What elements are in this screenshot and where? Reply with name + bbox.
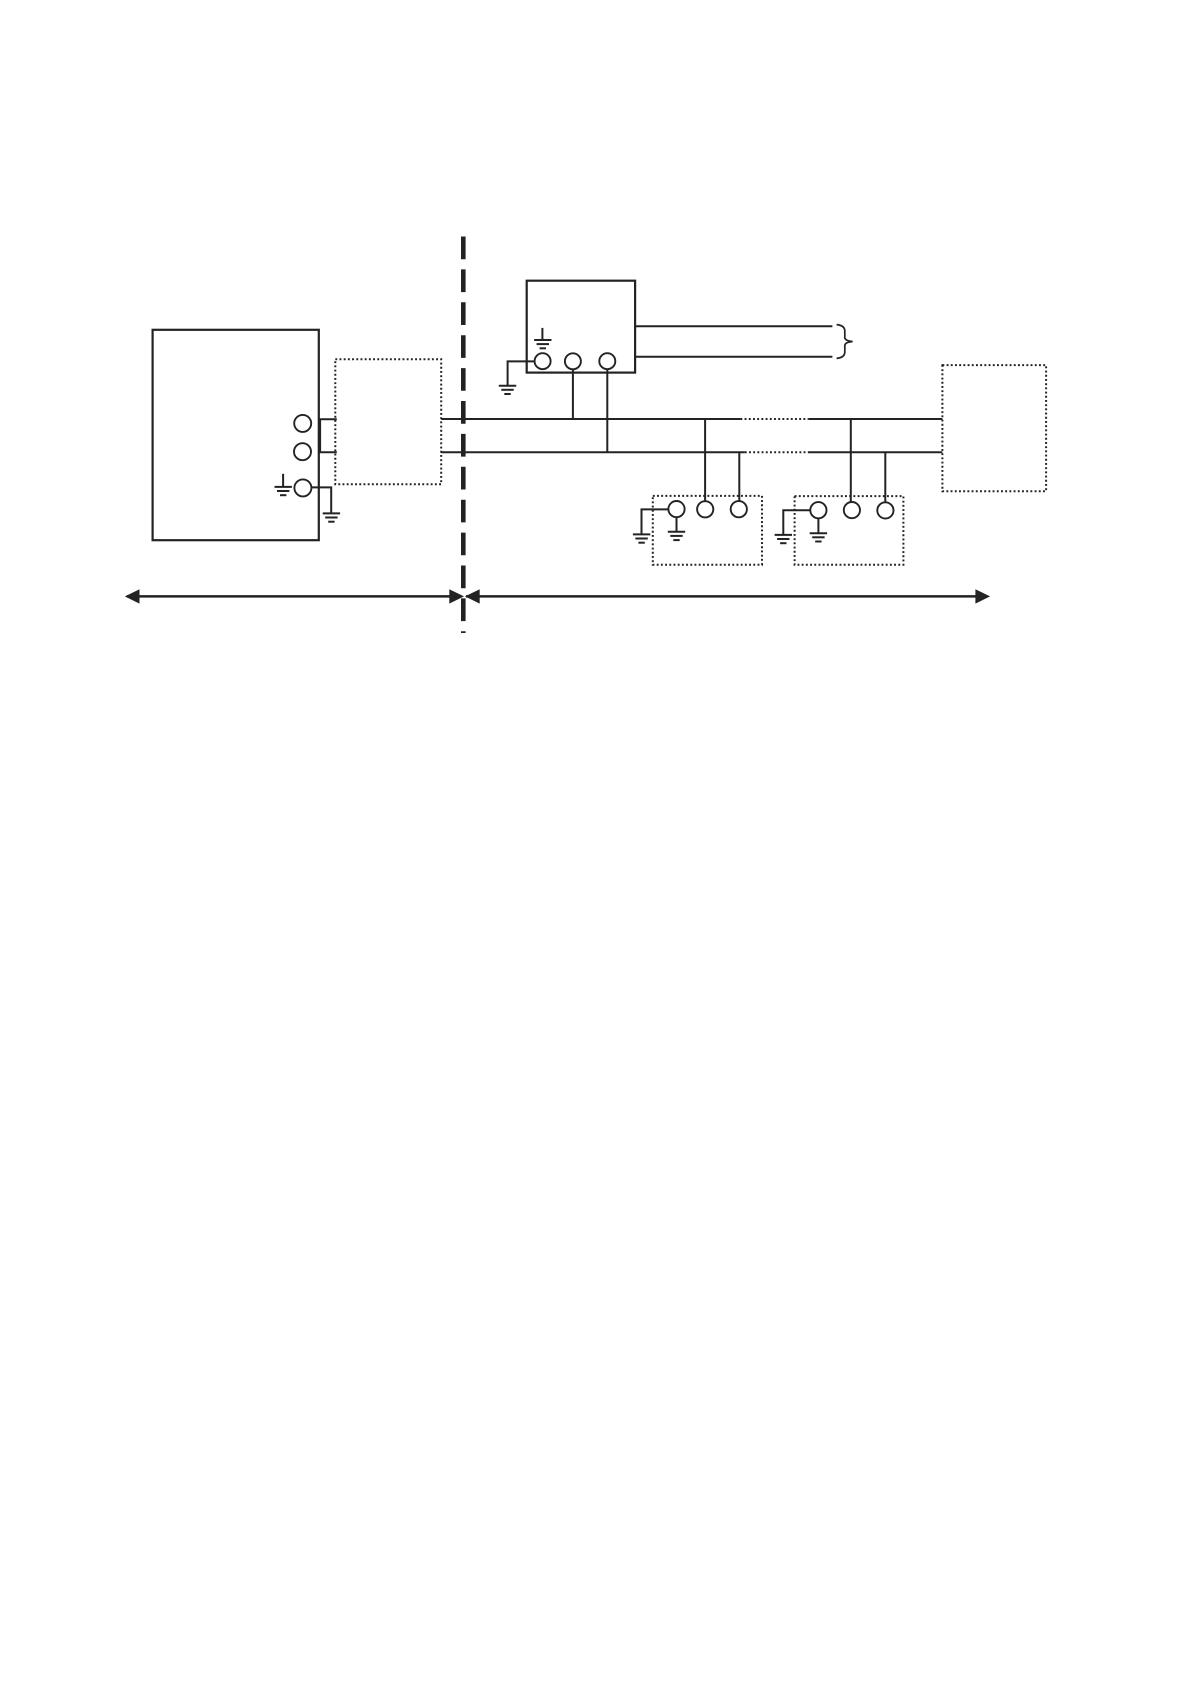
wire from terminal C down to bus 2 [606, 369, 608, 452]
bottom dotted box 2 [795, 496, 904, 565]
drop wire bus1 to box2 terminal 2 [850, 419, 852, 502]
ground symbol below T3 wire [323, 513, 340, 521]
terminal circle A in top box [535, 353, 551, 369]
ground symbol above terminal A [534, 328, 551, 348]
wire from terminal B down to bus 1 [572, 369, 574, 419]
terminal circle 2 of box 2 [844, 502, 860, 518]
terminal circle 3 of box 2 [877, 502, 893, 518]
terminal circle B in top box [565, 353, 581, 369]
terminal circle 2 of box 1 [697, 501, 713, 517]
curly brace bundling output wires [837, 325, 853, 359]
wire from T2 to filter box [319, 451, 337, 453]
terminal circle C in top box [599, 353, 615, 369]
drop wire bus2 to box2 terminal 3 [884, 452, 886, 502]
terminal circle 3 of box 1 [731, 501, 747, 517]
ground symbol below box1 terminal 1 [668, 517, 685, 540]
wire from T3 to ground [312, 487, 332, 513]
bottom dotted box 1 [653, 496, 762, 565]
right arrowhead [975, 589, 990, 603]
bus line 2 solid right part [810, 451, 943, 453]
wire from T1 to filter box [319, 418, 337, 420]
dashed boundary line [461, 237, 466, 634]
terminal circle T2 on left box [294, 443, 311, 460]
left span arrow line [127, 595, 461, 598]
terminal circle T1 on left box [294, 415, 311, 432]
bus line 2 dotted middle part [745, 451, 810, 453]
ground symbol left of box 1 [633, 534, 650, 542]
bus line 2 (lower) solid left part [441, 451, 745, 453]
terminal circle T3 on left box [294, 479, 311, 496]
top equipment box [527, 281, 635, 373]
terminal circle 1 of box 2 [810, 502, 826, 518]
wire from box1 terminal 1 to external ground [642, 509, 669, 534]
bus line 1 solid right part [809, 418, 943, 420]
bus line 1 (upper) solid left part [441, 418, 740, 420]
upper output wire from top box [635, 325, 832, 327]
vertical wire segment along left box edge [319, 419, 321, 452]
ground symbol left of box 2 [775, 535, 792, 543]
wire from box2 terminal 1 to external ground [783, 510, 810, 535]
center left-pointing arrowhead [465, 589, 480, 603]
ground symbol left of T3 [275, 474, 292, 495]
ground symbol below top box left [499, 386, 516, 394]
bus line 1 dotted middle part [740, 418, 808, 420]
wire from terminal A to external ground [508, 361, 535, 385]
ground symbol below box2 terminal 1 [810, 518, 827, 541]
drop wire bus2 to box1 terminal 3 [738, 452, 740, 501]
center right-pointing arrowhead [449, 589, 464, 603]
left equipment box [153, 330, 319, 540]
dotted filter box (middle) [335, 359, 441, 484]
drop wire bus1 to box1 terminal 2 [704, 419, 706, 501]
lower output wire from top box [635, 356, 832, 358]
right span arrow line [466, 595, 987, 598]
right dotted equipment box [942, 365, 1046, 491]
left arrowhead [125, 589, 140, 603]
terminal circle 1 of box 1 [668, 501, 684, 517]
